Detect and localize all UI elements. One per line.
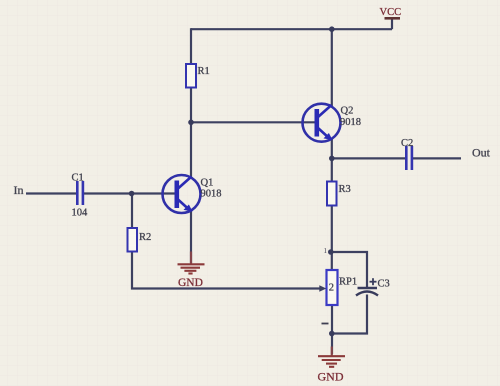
junction node R1/Q2 base: [188, 120, 194, 126]
svg-text:2: 2: [329, 283, 334, 294]
wire Q1 emitter to ground: [190, 210, 192, 263]
wire R1 bottom: [190, 88, 192, 123]
wire node to C3 top: [331, 252, 367, 287]
svg-text:9018: 9018: [340, 117, 361, 128]
plus sign C3: [370, 278, 377, 285]
wire C3 bottom: [332, 295, 367, 334]
svg-text:GND: GND: [178, 277, 203, 289]
svg-text:R1: R1: [198, 66, 210, 77]
svg-text:R2: R2: [139, 232, 151, 243]
svg-text:Q1: Q1: [201, 178, 214, 189]
capacitor C2: [406, 146, 412, 170]
wire R3 bottom to RP1 top: [331, 206, 333, 271]
svg-text:VCC: VCC: [380, 7, 402, 18]
wire R2 top: [131, 194, 133, 229]
svg-text:104: 104: [72, 208, 89, 219]
wire node to R3 top: [331, 158, 333, 181]
svg-text:Q2: Q2: [341, 106, 354, 117]
junction node R3 / RP1 / C3: [328, 249, 334, 255]
resistor R2: [128, 228, 138, 252]
wire top rail: [191, 28, 392, 30]
wire R2 bottom to RP1 wiper: [132, 252, 320, 289]
wire C1 to Q1 base: [84, 192, 175, 194]
junction node Q2 emitter / C2 / R3: [329, 156, 335, 162]
capacitor C1: [77, 181, 83, 205]
wire emitter node to C2: [332, 157, 405, 159]
ground GND 2: [318, 356, 345, 367]
svg-text:R3: R3: [339, 184, 351, 195]
wire C2 to Out: [413, 157, 461, 159]
svg-text:1: 1: [324, 247, 328, 255]
ground GND 1 red stub: [190, 252, 192, 264]
svg-text:GND: GND: [318, 370, 344, 384]
ground GND 1: [178, 264, 205, 273]
power VCC: [385, 17, 401, 20]
junction node RP1 bottom / C3: [329, 331, 335, 337]
ground GND 2 red stub: [331, 347, 333, 357]
pin 3 mark (dash): [322, 323, 329, 325]
wire RP1 bottom: [331, 305, 333, 354]
svg-text:9018: 9018: [201, 189, 222, 200]
wire Q1 collector: [190, 122, 192, 178]
svg-text:C1: C1: [72, 173, 84, 184]
svg-text:RP1: RP1: [339, 277, 357, 288]
potentiometer RP1: [319, 270, 337, 305]
svg-text:C2: C2: [401, 138, 413, 149]
junction node In/R2: [129, 191, 135, 197]
wire Q2 collector: [331, 29, 333, 106]
wire R1 to Q2 base: [191, 121, 317, 123]
capacitor C3 (polarized): [356, 288, 378, 296]
svg-text:C3: C3: [378, 279, 390, 290]
wire R1 top: [190, 28, 192, 64]
wire In lead: [26, 192, 77, 194]
svg-text:Out: Out: [472, 146, 491, 160]
resistor R3: [327, 182, 337, 206]
junction node VCC rail / Q2 collector: [329, 26, 335, 32]
resistor R1: [186, 64, 196, 88]
wire VCC stub: [391, 19, 393, 30]
svg-text:In: In: [14, 183, 24, 197]
transistor Q1: [163, 175, 201, 213]
transistor Q2: [303, 104, 341, 142]
wire Q2 emitter: [331, 139, 333, 158]
